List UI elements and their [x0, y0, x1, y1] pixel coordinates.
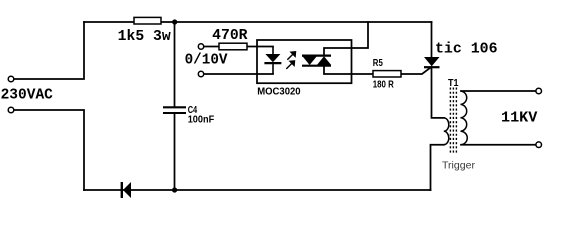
svg-text:470R: 470R	[212, 28, 248, 44]
terminal 0/10V lower	[198, 71, 203, 76]
wire secondary bottom lead	[461, 144, 536, 146]
svg-text:T1: T1	[448, 77, 459, 89]
light arrows	[286, 52, 295, 69]
resistor 470R	[219, 43, 247, 50]
op-to-coupler U1 box MOC3020	[257, 40, 352, 83]
wire left vertical lower	[14, 110, 84, 190]
photo-triac inside MOC3020	[302, 56, 331, 66]
node junction dot top	[172, 19, 177, 24]
LED inside MOC3020	[264, 47, 281, 75]
terminal 230VAC lower	[8, 107, 14, 113]
svg-text:180 R: 180 R	[373, 78, 394, 90]
svg-text:MOC3020: MOC3020	[257, 86, 301, 98]
wire transformer primary bottom to bottom rail	[431, 145, 444, 190]
thyristor tic 106	[424, 57, 440, 67]
resistor 1k5 3w	[134, 17, 161, 24]
svg-text:1k5 3w: 1k5 3w	[118, 29, 171, 45]
wire top rail	[84, 21, 432, 23]
wire SCR cathode to transformer primary top	[432, 67, 444, 118]
wire 0/10V upper lead through 470R to LED	[204, 46, 273, 48]
svg-text:0/10V: 0/10V	[185, 52, 228, 68]
wire capacitor branch	[174, 22, 176, 190]
primary winding	[444, 118, 449, 145]
capacitor C4	[163, 107, 186, 113]
svg-text:R5: R5	[373, 57, 383, 69]
terminal 11KV upper	[536, 88, 542, 94]
wire left vertical upper	[14, 22, 84, 79]
terminal 11KV lower	[536, 142, 542, 148]
wire 0/10V lower lead to LED cathode	[204, 73, 273, 75]
svg-text:100nF: 100nF	[188, 113, 215, 125]
core	[450, 88, 456, 155]
terminal 230VAC upper	[8, 76, 14, 82]
transformer T1	[444, 88, 467, 155]
wire triac MT2 to top rail	[324, 22, 368, 55]
secondary winding	[461, 91, 468, 145]
svg-text:tic 106: tic 106	[435, 41, 498, 57]
resistor R5	[373, 71, 401, 77]
wire bottom rail	[84, 189, 431, 191]
svg-text:230VAC: 230VAC	[1, 87, 54, 103]
wire triac MT1 to R5 and gate of SCR	[324, 66, 432, 74]
node junction dot bottom	[172, 187, 177, 192]
svg-text:11KV: 11KV	[501, 110, 538, 126]
terminal 0/10V upper	[198, 44, 203, 49]
diode D1	[122, 182, 131, 198]
svg-text:Trigger: Trigger	[442, 160, 475, 172]
wire SCR anode drop	[431, 22, 433, 57]
wire secondary top lead	[461, 90, 536, 92]
